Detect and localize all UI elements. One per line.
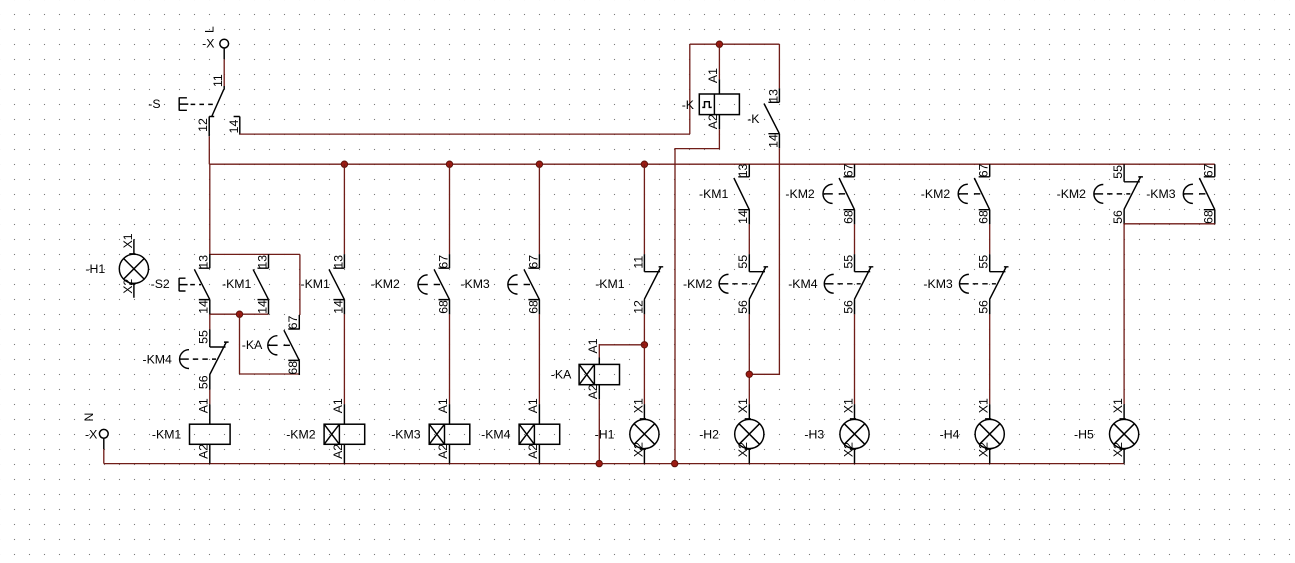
svg-text:13: 13 [197, 255, 211, 269]
coil -KM4 [481, 398, 560, 464]
svg-text:11: 11 [211, 74, 225, 87]
svg-text:-KM4: -KM4 [143, 353, 173, 367]
wire KM3 68 to KM4 coil [538, 314, 540, 404]
wire bus to KM3 67/68 [538, 164, 540, 254]
svg-text:-KA: -KA [551, 367, 572, 381]
wire KM3 56 down to lamp H4 [989, 314, 991, 404]
lamp -H1 spare symbol [85, 233, 148, 298]
wire far right rail [1124, 223, 1215, 225]
svg-text:67: 67 [841, 163, 855, 177]
svg-text:-H4: -H4 [940, 427, 960, 441]
contact -KM2 55/56 delayed NC [1057, 164, 1143, 224]
svg-text:56: 56 [197, 375, 211, 389]
wire main control bus [210, 163, 1215, 165]
svg-text:14: 14 [227, 120, 241, 134]
contact -KM4 55/56 delayed NC [788, 254, 873, 314]
svg-text:-KM1: -KM1 [222, 277, 252, 291]
svg-text:-KM3: -KM3 [391, 427, 421, 441]
svg-text:L: L [203, 26, 217, 33]
wire bus to KM2 67/68 [449, 164, 451, 254]
wire S pin 14 to relay K riser [240, 133, 690, 135]
svg-text:56: 56 [977, 300, 991, 314]
svg-text:55: 55 [197, 330, 211, 344]
contact -KM2 67/68 delayed [371, 254, 451, 314]
svg-text:X1: X1 [977, 398, 991, 413]
wire top node to K contact [690, 43, 780, 45]
wire K coil A2 to N bus [675, 129, 719, 463]
svg-text:67: 67 [526, 255, 540, 269]
svg-text:-K: -K [747, 112, 760, 126]
svg-text:-H1: -H1 [595, 427, 615, 441]
contact -KM1 13/14 self-hold [222, 254, 269, 314]
wire K 14 down to H2 branch [749, 148, 779, 374]
svg-text:-H2: -H2 [699, 427, 719, 441]
wire KM2 56 down to lamp H2 [748, 314, 750, 404]
svg-text:A2: A2 [706, 114, 720, 129]
svg-text:-KM3: -KM3 [923, 277, 953, 291]
wire KA coil A2 to N bus [598, 399, 600, 463]
svg-text:13: 13 [736, 163, 750, 177]
svg-text:X2: X2 [631, 442, 645, 457]
svg-text:-KM1: -KM1 [152, 427, 182, 441]
svg-text:55: 55 [977, 255, 991, 269]
svg-text:56: 56 [1111, 210, 1125, 224]
svg-text:A2: A2 [331, 444, 345, 459]
wire KM1 14 to KM2 55 [748, 224, 750, 254]
svg-text:A2: A2 [586, 384, 600, 399]
svg-text:14: 14 [255, 300, 269, 314]
svg-text:67: 67 [286, 316, 300, 330]
wire KM1 12 down to lamp H1 [643, 314, 645, 404]
contact -KM2 55/56 delayed NC [683, 254, 768, 314]
svg-text:-K: -K [682, 98, 695, 112]
contact -KA 67/68 delayed [242, 315, 300, 375]
relay coil -K (impulse relay) [682, 68, 740, 129]
svg-text:14: 14 [766, 134, 780, 148]
lamp -H1 [595, 398, 659, 464]
svg-text:67: 67 [977, 163, 991, 177]
svg-text:14: 14 [197, 300, 211, 314]
svg-text:X2: X2 [977, 442, 991, 457]
contact -KM3 67/68 delayed [460, 254, 540, 314]
junction bus H1 branch [641, 161, 647, 167]
wire N terminal to bottom bus [103, 449, 105, 464]
contact -KM1 11/12 [595, 254, 663, 314]
svg-text:68: 68 [841, 210, 855, 224]
svg-text:-H1: -H1 [85, 262, 105, 276]
svg-text:-KM4: -KM4 [481, 427, 511, 441]
wire riser to top node [689, 44, 691, 134]
junction KA coil tap [641, 342, 647, 348]
svg-text:-KM1: -KM1 [699, 187, 729, 201]
contact -KM4 55/56 delayed NC [143, 330, 229, 390]
junction KA A2 at N bus [596, 460, 602, 466]
svg-text:N: N [82, 413, 96, 422]
svg-text:-KM2: -KM2 [1057, 187, 1087, 201]
svg-text:A1: A1 [197, 398, 211, 413]
junction bus KM3 branch [446, 161, 452, 167]
svg-text:-KM2: -KM2 [683, 277, 713, 291]
svg-text:-KA: -KA [242, 338, 263, 352]
svg-text:X1: X1 [631, 398, 645, 413]
wire bus to KM1 11/12 [643, 164, 645, 254]
svg-text:X2: X2 [121, 279, 135, 294]
contact -KM1 13/14 [699, 163, 750, 224]
svg-text:-KM4: -KM4 [788, 277, 818, 291]
svg-text:X1: X1 [1111, 398, 1125, 413]
junction KA parallel tap [236, 311, 242, 317]
svg-text:56: 56 [736, 300, 750, 314]
svg-text:A1: A1 [706, 68, 720, 83]
svg-text:13: 13 [255, 255, 269, 269]
svg-text:56: 56 [841, 300, 855, 314]
svg-text:68: 68 [286, 361, 300, 375]
svg-text:-KM2: -KM2 [785, 187, 815, 201]
svg-text:67: 67 [436, 255, 450, 269]
svg-text:68: 68 [526, 300, 540, 314]
svg-text:68: 68 [1202, 210, 1216, 224]
coil -KM3 [391, 398, 470, 464]
pushbutton -S changeover 11-12/14 [148, 74, 241, 136]
wire bus down to S2 rail [209, 164, 211, 254]
wire KM1 14 to KM2 coil [343, 314, 345, 404]
svg-text:12: 12 [631, 300, 645, 314]
svg-text:A1: A1 [586, 338, 600, 353]
lamp -H2 [699, 398, 764, 464]
pushbutton -S2 13/14 [151, 254, 211, 314]
lamp -H5 [1074, 398, 1139, 464]
svg-text:55: 55 [736, 255, 750, 269]
wire S pin 12 to bus [208, 136, 210, 164]
svg-text:12: 12 [196, 118, 210, 132]
svg-text:13: 13 [766, 89, 780, 103]
junction K A2 at N bus [672, 460, 678, 466]
coil -KM2 [286, 398, 365, 464]
svg-text:-X: -X [85, 427, 97, 441]
svg-text:-KM1: -KM1 [301, 277, 331, 291]
junction bus KM4 branch [536, 161, 542, 167]
svg-text:-KM2: -KM2 [286, 427, 316, 441]
wire KA parallel drop [239, 314, 241, 374]
contact -KM2 67/68 delayed [921, 163, 991, 224]
wire KM2 56 down to lamp H5 [1123, 224, 1125, 404]
svg-text:-X: -X [202, 37, 214, 51]
svg-text:A1: A1 [526, 398, 540, 413]
svg-text:-KM1: -KM1 [595, 277, 625, 291]
svg-text:X2: X2 [736, 442, 750, 457]
wire parallel top rail [210, 253, 300, 255]
coil -KM1 [152, 398, 230, 464]
svg-text:14: 14 [736, 210, 750, 224]
terminal -X phase L [202, 26, 229, 59]
contact -KM3 55/56 delayed NC [923, 254, 1008, 314]
wire KA coil A1 [599, 345, 644, 358]
wire bus to KM1 13/14 [343, 164, 345, 254]
wire KA contact bottom rail [240, 373, 300, 375]
junction K 14 tap [746, 371, 752, 377]
svg-text:13: 13 [331, 255, 345, 269]
svg-text:14: 14 [331, 300, 345, 314]
svg-text:-KM2: -KM2 [921, 187, 951, 201]
svg-text:X1: X1 [841, 398, 855, 413]
svg-text:-S: -S [148, 97, 160, 111]
svg-text:A2: A2 [436, 444, 450, 459]
wire KM2 68 to KM4 55 [854, 224, 856, 254]
svg-text:-KM3: -KM3 [1146, 187, 1176, 201]
wire KM4 contact to KM1 coil [209, 390, 211, 405]
svg-text:67: 67 [1202, 163, 1216, 177]
svg-text:X1: X1 [736, 398, 750, 413]
svg-text:A1: A1 [331, 398, 345, 413]
svg-text:68: 68 [977, 210, 991, 224]
wire top node to K 13 [778, 44, 780, 88]
junction bus KM2 branch [341, 161, 347, 167]
contact -KM3 67/68 delayed [1146, 163, 1216, 224]
wire K coil A1 [718, 44, 720, 79]
svg-text:X2: X2 [1111, 442, 1125, 457]
svg-text:A1: A1 [436, 398, 450, 413]
lamp -H3 [804, 398, 869, 464]
svg-text:-H5: -H5 [1074, 427, 1094, 441]
svg-text:55: 55 [841, 255, 855, 269]
lamp -H4 [940, 398, 1005, 464]
terminal -X neutral N [82, 413, 108, 449]
svg-text:A2: A2 [526, 444, 540, 459]
contact -K 13/14 [747, 88, 780, 148]
contact -KM1 13/14 [301, 254, 346, 314]
svg-text:-S2: -S2 [151, 277, 170, 291]
svg-text:68: 68 [436, 300, 450, 314]
svg-text:55: 55 [1111, 165, 1125, 179]
svg-text:A2: A2 [197, 444, 211, 459]
svg-text:X2: X2 [841, 442, 855, 457]
svg-text:-KM2: -KM2 [371, 277, 401, 291]
wire KA contact top feed [299, 254, 301, 315]
svg-text:-KM3: -KM3 [460, 277, 490, 291]
wire parallel bottom rail [210, 313, 269, 315]
contact -KM2 67/68 delayed [785, 163, 855, 224]
wire KM4 56 down to lamp H3 [854, 314, 856, 404]
wire KM2 68 to KM3 55 [989, 224, 991, 254]
svg-text:X1: X1 [121, 233, 135, 248]
wire L terminal to S pin 11 [223, 59, 225, 86]
coil -KA [551, 338, 620, 399]
svg-text:-H3: -H3 [804, 427, 824, 441]
svg-text:11: 11 [631, 256, 645, 269]
wire rail2 to KM4 contact [209, 314, 211, 329]
wire neutral bottom bus [104, 463, 1125, 465]
wire KM2 68 to KM3 coil [449, 314, 451, 404]
junction node A1 feed [716, 41, 722, 47]
